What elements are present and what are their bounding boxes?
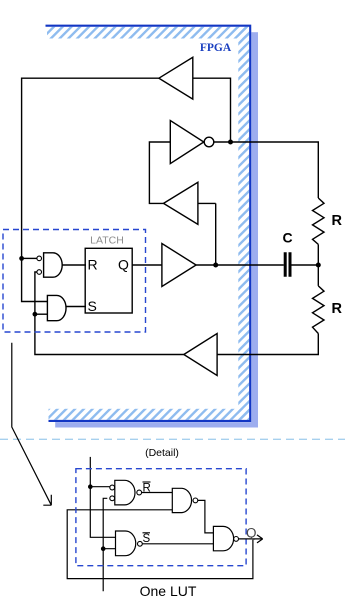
wire latch Q to T4 input xyxy=(132,264,162,266)
wire T3 output to T2 input xyxy=(149,142,170,203)
svg-text:Q: Q xyxy=(118,257,129,273)
junction detail rail1 dot xyxy=(88,484,93,489)
detail input line top xyxy=(89,457,91,487)
wire gate G1 output to R xyxy=(62,264,86,266)
wire D2 output to D4 lower input xyxy=(142,543,213,545)
svg-text:R: R xyxy=(143,483,151,495)
nand D2 output bubble xyxy=(138,541,143,546)
nand D4 body xyxy=(213,526,233,550)
capacitor C plates xyxy=(285,252,290,276)
svg-text:S: S xyxy=(143,533,151,545)
svg-text:FPGA: FPGA xyxy=(200,42,232,54)
wire T3 input tap xyxy=(198,202,216,204)
svg-text:S: S xyxy=(88,298,97,314)
wire rail2 branch to gate G2 lower input xyxy=(35,313,48,315)
separator dashed line xyxy=(0,438,345,440)
svg-text:R: R xyxy=(88,257,98,273)
wire rail1 to gate G1 upper input xyxy=(22,257,37,259)
label Sbar overline xyxy=(143,532,151,534)
svg-text:LATCH: LATCH xyxy=(90,235,124,247)
inverter T2 xyxy=(170,121,204,164)
buffer T5 xyxy=(184,334,217,376)
detail feedback loop wire xyxy=(67,510,253,579)
detail rail1 xyxy=(90,487,115,538)
junction latch rail1 dot xyxy=(19,256,24,261)
nand D1 input bubble lower xyxy=(110,496,115,501)
FPGA boundary hatch right xyxy=(238,27,249,420)
nand D1 input bubble upper xyxy=(110,485,115,490)
nand D3 output bubble xyxy=(193,498,198,503)
svg-text:One LUT: One LUT xyxy=(140,583,197,599)
wire T4 output to capacitor xyxy=(196,264,284,266)
FPGA boundary hatch bottom xyxy=(49,409,250,420)
and G2 body xyxy=(47,295,66,320)
wire D4 output Q with arrow xyxy=(239,535,263,543)
nand D1 output bubble xyxy=(137,490,142,495)
wire T1 input from ring node xyxy=(193,78,231,142)
nand D3 body xyxy=(172,488,191,512)
junction T4 output node xyxy=(213,263,218,268)
resistor R2 xyxy=(313,286,325,334)
wire external right vertical with resistors xyxy=(217,142,318,355)
FPGA boundary drop shadow bottom xyxy=(55,422,258,427)
svg-text:R: R xyxy=(332,213,343,229)
wire T5 output to latch rail2 xyxy=(35,272,184,355)
wire latch rail1 lower branch xyxy=(22,258,48,301)
FPGA boundary drop shadow right xyxy=(251,32,258,427)
annotation arrow latch to detail xyxy=(12,343,52,506)
nand D1 body xyxy=(115,480,135,505)
svg-text:(Detail): (Detail) xyxy=(145,447,179,459)
svg-text:C: C xyxy=(282,230,292,246)
nand G1 input bubble upper xyxy=(37,256,42,261)
latch dashed box xyxy=(3,230,146,333)
nand G1 input bubble lower xyxy=(37,270,42,275)
wire D1 output to D3 xyxy=(142,492,172,494)
svg-text:Q: Q xyxy=(246,526,257,541)
label Rbar overline xyxy=(143,481,151,483)
wire vertical net T3 in / T4 out xyxy=(215,203,217,265)
wire T1 output to latch rail1 xyxy=(22,78,159,258)
buffer T1 xyxy=(159,57,193,99)
wire gate G2 output to S xyxy=(66,306,87,308)
junction detail rail2 dot xyxy=(101,546,106,551)
junction ring node top xyxy=(228,140,233,145)
detail rail2 xyxy=(103,498,115,591)
FPGA boundary border xyxy=(46,26,251,421)
wire D3 output to D4 upper input xyxy=(198,500,214,533)
junction latch rail2 dot xyxy=(33,312,38,317)
detail dashed box xyxy=(76,469,246,566)
nand D2 body xyxy=(116,531,136,556)
inverter T2 bubble xyxy=(204,137,214,147)
nand G1 body xyxy=(44,253,63,277)
svg-text:R: R xyxy=(332,301,343,317)
wire capacitor to node xyxy=(291,264,318,266)
latch box xyxy=(85,248,132,313)
buffer T3 xyxy=(164,182,198,224)
buffer T4 xyxy=(162,244,196,287)
resistor R1 xyxy=(313,198,325,244)
junction RC node xyxy=(316,263,321,268)
wire T2 output to external R chain xyxy=(214,141,319,143)
nand D4 output bubble xyxy=(234,537,239,542)
FPGA boundary hatch top xyxy=(47,27,249,39)
